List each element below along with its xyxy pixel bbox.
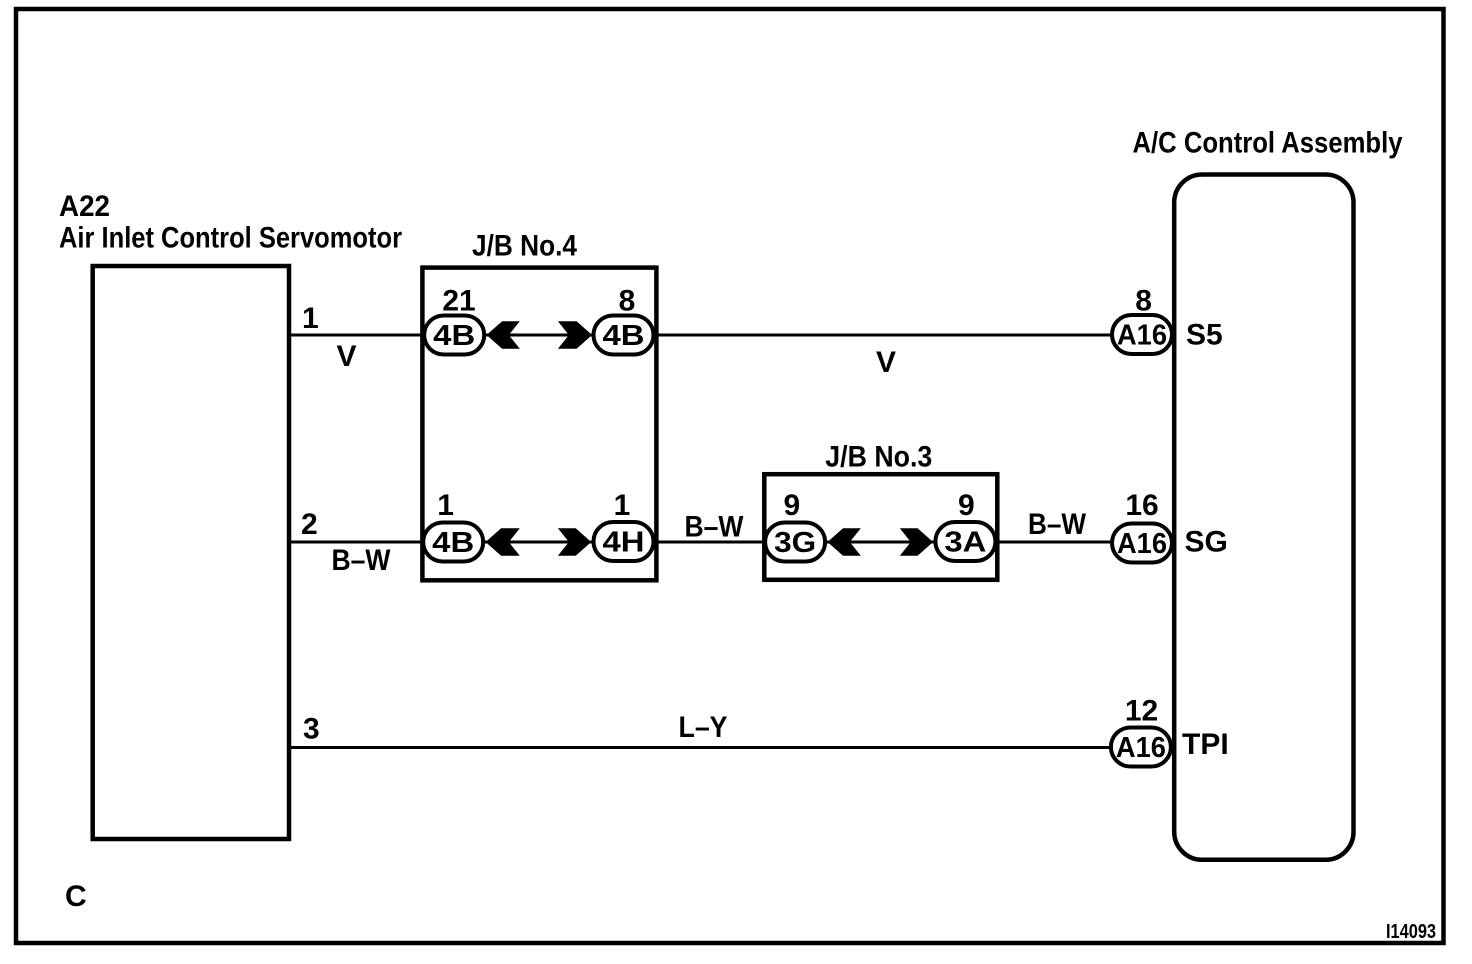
svg-text:TPI: TPI xyxy=(1182,728,1229,761)
svg-text:8: 8 xyxy=(619,285,636,318)
svg-text:2: 2 xyxy=(301,508,318,541)
svg-text:3G: 3G xyxy=(774,527,816,559)
connector A16 pin 8 (S5) xyxy=(1112,315,1172,354)
connector 4H pin 1 (J/B No.4 right, row 2) xyxy=(594,522,654,561)
svg-text:I14093: I14093 xyxy=(1386,921,1436,943)
connector A16 pin 12 (TPI) xyxy=(1111,728,1171,767)
svg-text:21: 21 xyxy=(442,285,475,318)
A/C Control Assembly box xyxy=(1174,175,1353,860)
svg-text:A16: A16 xyxy=(1117,320,1167,352)
connector 4B pin 8 (J/B No.4 right, row 1) xyxy=(594,316,654,355)
svg-text:1: 1 xyxy=(614,489,631,522)
wire V pin1 A22 to J/B No.4 to A16 S5 xyxy=(289,334,1174,337)
svg-text:4B: 4B xyxy=(603,320,645,352)
svg-text:9: 9 xyxy=(783,489,800,522)
splice arrow right (J/B No.4 row 2) xyxy=(558,528,591,555)
svg-text:3A: 3A xyxy=(944,527,986,559)
svg-text:A22: A22 xyxy=(59,190,110,223)
svg-text:B–W: B–W xyxy=(685,511,745,544)
svg-text:SG: SG xyxy=(1185,526,1228,559)
svg-text:4H: 4H xyxy=(603,527,645,559)
svg-text:J/B No.3: J/B No.3 xyxy=(825,440,932,473)
svg-text:A/C Control Assembly: A/C Control Assembly xyxy=(1133,127,1403,160)
splice arrow right (J/B No.4 row 1) xyxy=(558,321,592,348)
svg-text:1: 1 xyxy=(302,302,319,335)
svg-text:V: V xyxy=(336,340,356,373)
wire B-W pin2 A22 to J/B No.4 to J/B No.3 to A16 SG xyxy=(289,541,1174,544)
svg-text:16: 16 xyxy=(1125,489,1158,522)
connector 3G pin 9 (J/B No.3 left) xyxy=(765,523,825,562)
svg-text:A16: A16 xyxy=(1116,732,1166,764)
splice arrow left (J/B No.3) xyxy=(828,528,861,555)
svg-text:L–Y: L–Y xyxy=(679,711,728,744)
junction block J/B No.4 box xyxy=(422,268,656,581)
svg-text:C: C xyxy=(65,880,87,913)
splice arrow right (J/B No.3) xyxy=(900,528,933,555)
svg-text:8: 8 xyxy=(1135,285,1152,318)
splice arrow left (J/B No.4 row 1) xyxy=(487,321,520,348)
connector 4B pin 21 (J/B No.4 left, row 1) xyxy=(424,316,484,355)
svg-text:B–W: B–W xyxy=(1028,508,1087,541)
connector A16 pin 16 (SG) xyxy=(1112,524,1172,563)
component A22 Air Inlet Control Servomotor box xyxy=(93,266,289,839)
svg-text:Air Inlet Control Servomotor: Air Inlet Control Servomotor xyxy=(59,222,402,255)
svg-text:4B: 4B xyxy=(432,527,474,559)
svg-text:3: 3 xyxy=(303,713,320,746)
splice arrow left (J/B No.4 row 2) xyxy=(486,528,520,555)
svg-text:A16: A16 xyxy=(1117,528,1167,560)
svg-text:12: 12 xyxy=(1125,695,1158,728)
svg-text:S5: S5 xyxy=(1186,319,1223,352)
svg-text:V: V xyxy=(876,346,896,379)
svg-text:4B: 4B xyxy=(433,320,475,352)
connector 3A pin 9 (J/B No.3 right) xyxy=(935,522,995,561)
wire L-Y pin3 A22 to A16 TPI xyxy=(289,746,1174,749)
svg-text:B–W: B–W xyxy=(332,544,392,577)
svg-text:9: 9 xyxy=(958,489,975,522)
svg-text:1: 1 xyxy=(437,489,454,522)
junction block J/B No.3 box xyxy=(764,474,997,580)
svg-text:J/B No.4: J/B No.4 xyxy=(472,230,577,263)
connector 4B pin 1 (J/B No.4 left, row 2) xyxy=(423,523,483,562)
